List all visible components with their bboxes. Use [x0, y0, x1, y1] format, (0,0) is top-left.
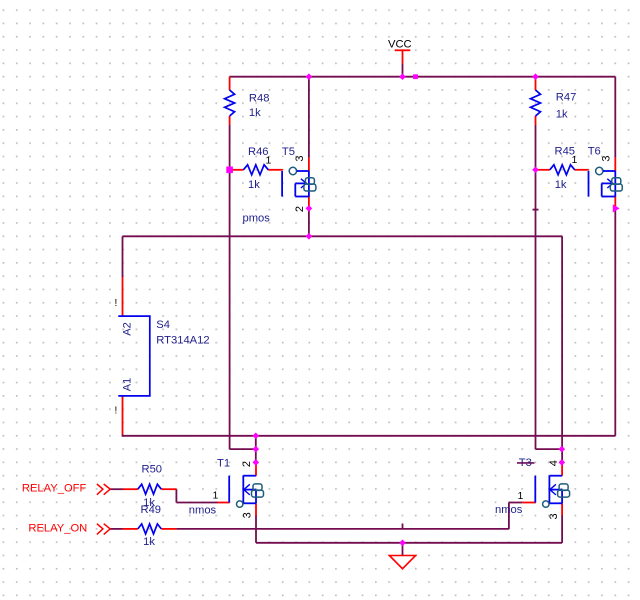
svg-text:R50: R50 — [142, 464, 163, 476]
svg-text:1: 1 — [213, 490, 219, 502]
svg-text:T3: T3 — [519, 457, 532, 469]
svg-text:1: 1 — [266, 155, 272, 167]
svg-text:2: 2 — [294, 206, 306, 212]
svg-text:1: 1 — [518, 490, 524, 502]
svg-text:1k: 1k — [249, 107, 261, 119]
svg-text:3: 3 — [601, 156, 613, 162]
svg-text:pmos: pmos — [243, 213, 271, 225]
svg-text:VCC: VCC — [388, 39, 412, 51]
svg-text:S4: S4 — [156, 319, 170, 331]
svg-text:A2: A2 — [121, 322, 133, 335]
svg-text:4: 4 — [548, 460, 560, 466]
svg-text:1k: 1k — [143, 536, 155, 548]
svg-text:RELAY_ON: RELAY_ON — [28, 523, 87, 535]
svg-text:R48: R48 — [249, 93, 270, 105]
svg-text:RELAY_OFF: RELAY_OFF — [22, 482, 87, 494]
svg-text:!: ! — [115, 405, 118, 416]
svg-text:R47: R47 — [556, 92, 577, 104]
svg-text:RT314A12: RT314A12 — [156, 335, 209, 347]
svg-text:R49: R49 — [141, 504, 162, 516]
svg-text:nmos: nmos — [495, 504, 523, 516]
svg-text:nmos: nmos — [189, 505, 217, 517]
svg-text:3: 3 — [294, 155, 306, 161]
svg-text:1: 1 — [572, 154, 578, 166]
svg-text:T1: T1 — [217, 458, 230, 470]
svg-text:T6: T6 — [588, 146, 601, 158]
svg-text:A1: A1 — [121, 378, 133, 391]
svg-text:3: 3 — [548, 513, 560, 519]
svg-text:!: ! — [115, 298, 118, 309]
svg-text:2: 2 — [241, 461, 253, 467]
svg-text:1k: 1k — [248, 179, 260, 191]
svg-text:3: 3 — [241, 512, 253, 518]
svg-text:1k: 1k — [556, 109, 568, 121]
svg-text:1k: 1k — [555, 179, 567, 191]
